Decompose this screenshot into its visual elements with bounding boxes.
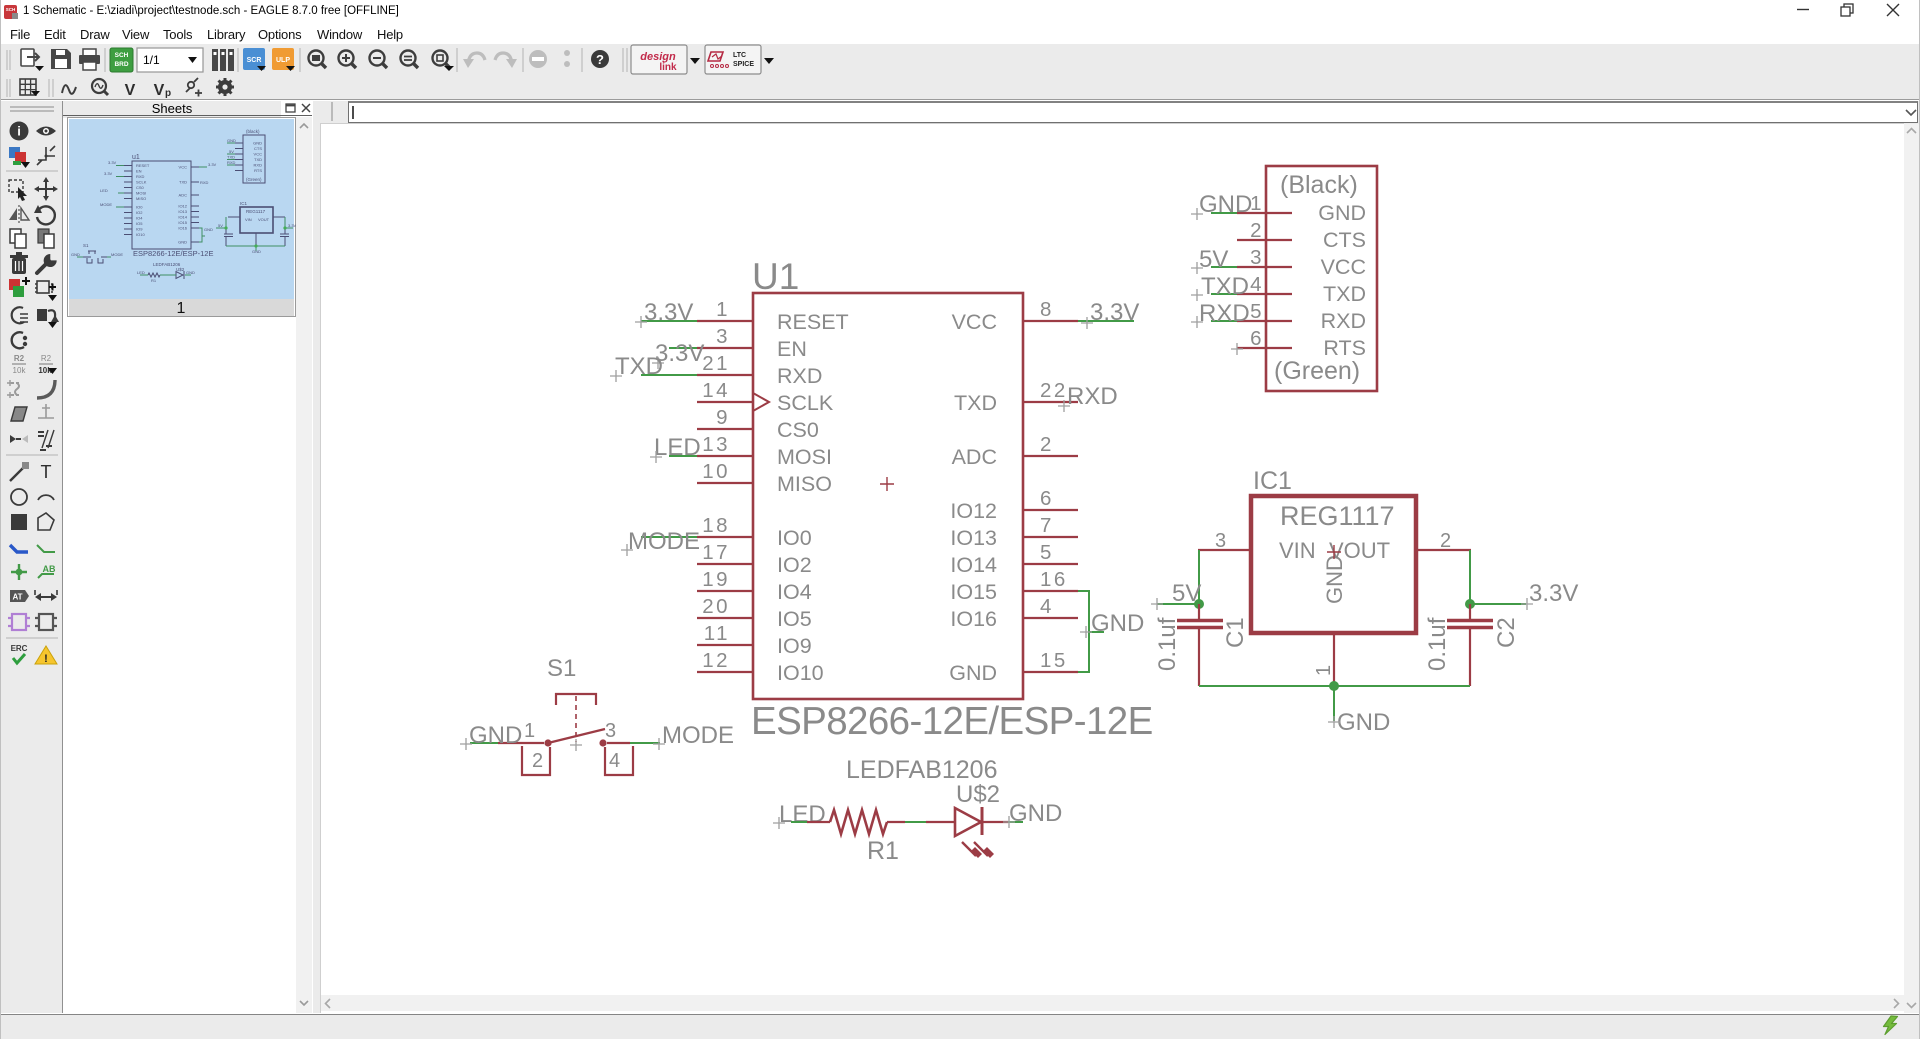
probe magnifier icon bbox=[92, 79, 108, 95]
IC1 reference designator bbox=[1253, 467, 1292, 495]
LTC SPICE button bbox=[705, 45, 761, 74]
svg-text:0.1uf: 0.1uf bbox=[1424, 617, 1451, 671]
zoom redraw icon bbox=[401, 51, 419, 69]
redo icon (disabled) bbox=[495, 53, 517, 68]
svg-text:11: 11 bbox=[704, 622, 730, 645]
svg-text:LED: LED bbox=[779, 801, 826, 828]
wire GND bottom rail bbox=[1199, 685, 1470, 687]
V probe icon bbox=[125, 82, 136, 99]
wire RXD to connector pin 5 bbox=[1211, 320, 1237, 322]
svg-text:2: 2 bbox=[1440, 530, 1451, 552]
tool bus bbox=[10, 545, 28, 552]
svg-text:1: 1 bbox=[524, 720, 535, 742]
C1 reference designator (rotated) bbox=[1222, 617, 1249, 648]
design link button bbox=[631, 45, 687, 74]
svg-text:MISO: MISO bbox=[777, 472, 832, 496]
open/export icon bbox=[21, 49, 44, 71]
wire VIN net: pin3 down to 5V junction bbox=[1198, 550, 1200, 604]
tool rotate bbox=[34, 205, 55, 224]
tool attribute bbox=[10, 590, 29, 602]
svg-text:TXD: TXD bbox=[1201, 273, 1249, 300]
connector pin 1 (GND) bbox=[1237, 192, 1366, 225]
U1 pin 17 (IO2) bbox=[697, 541, 812, 577]
svg-text:4: 4 bbox=[1250, 273, 1264, 296]
U1 pin 11 (IO9) bbox=[697, 622, 812, 658]
left toolbar drag handle bbox=[10, 107, 54, 111]
sheet thumbnail cell bbox=[68, 118, 296, 318]
svg-text:RESET: RESET bbox=[777, 310, 849, 334]
wire LED to U1 pin 13 bbox=[669, 455, 697, 457]
svg-text:MODE: MODE bbox=[628, 528, 700, 555]
wire MODE to U1 pin 18 bbox=[641, 536, 697, 538]
switch S1 reference designator bbox=[547, 655, 576, 682]
zoom in icon bbox=[339, 51, 357, 69]
wire GND to connector pin 1 bbox=[1211, 212, 1237, 214]
wire MODE to S1 pin 3 bbox=[630, 742, 660, 744]
status lightning bolt bbox=[1884, 1016, 1898, 1035]
IC1 value REG1117 bbox=[1280, 501, 1395, 531]
svg-text:3: 3 bbox=[1250, 246, 1264, 269]
svg-text:REG1117: REG1117 bbox=[1280, 501, 1395, 531]
tool circle bbox=[11, 489, 27, 505]
svg-text:5: 5 bbox=[1250, 300, 1264, 323]
IC1 REG1117 box bbox=[1251, 496, 1416, 633]
IC1 pin 3 (VIN) bbox=[1198, 530, 1251, 552]
U1 pin 3 (EN) bbox=[697, 325, 807, 361]
U1 pin 5 (IO14) bbox=[950, 541, 1078, 577]
svg-text:19: 19 bbox=[702, 568, 730, 591]
capacitor C1 bbox=[1177, 604, 1223, 686]
IC U1 ESP8266-12E box bbox=[753, 293, 1023, 699]
toolbar handle bbox=[7, 50, 10, 70]
options dots (disabled) bbox=[564, 50, 570, 67]
svg-text:EN: EN bbox=[777, 337, 807, 361]
undo icon (disabled) bbox=[463, 53, 485, 68]
U1 pin 7 (IO13) bbox=[950, 514, 1078, 550]
zoom out icon bbox=[370, 51, 388, 69]
wire 5V to connector pin 3 bbox=[1211, 266, 1237, 268]
svg-text:IO5: IO5 bbox=[777, 607, 812, 631]
U1 pin 12 (IO10) bbox=[697, 649, 824, 685]
command input caret bbox=[352, 106, 354, 119]
C2 reference designator (rotated) bbox=[1493, 617, 1520, 648]
net label GND (U1 right) bbox=[1080, 610, 1144, 638]
svg-text:GND: GND bbox=[1318, 201, 1366, 225]
wire 3.3V stub bbox=[1470, 603, 1526, 605]
junction at C2 top bbox=[1465, 599, 1475, 609]
wire GND stub (LED right) bbox=[1008, 821, 1023, 823]
net label 3.3V (IC1) bbox=[1521, 580, 1578, 610]
S1 pin 1 bbox=[498, 720, 544, 743]
svg-text:3.3V: 3.3V bbox=[644, 299, 693, 326]
svg-text:9: 9 bbox=[716, 406, 730, 429]
svg-text:4: 4 bbox=[609, 750, 620, 772]
net label 3.3V (U1 pin 1) bbox=[635, 299, 693, 328]
svg-text:C2: C2 bbox=[1493, 617, 1520, 648]
U1 pin 15 (GND) bbox=[949, 649, 1078, 685]
IC1 pin name VOUT bbox=[1329, 538, 1390, 563]
svg-text:S1: S1 bbox=[547, 655, 576, 682]
svg-text:SCLK: SCLK bbox=[777, 391, 834, 415]
tool move bbox=[34, 177, 58, 201]
svg-text:IO9: IO9 bbox=[777, 634, 812, 658]
settings gear icon bbox=[216, 78, 234, 96]
svg-text:18: 18 bbox=[702, 514, 730, 537]
wire 5V stub bbox=[1157, 603, 1200, 605]
svg-text:IO14: IO14 bbox=[950, 553, 997, 577]
svg-text:(Black): (Black) bbox=[1280, 171, 1358, 199]
tool add part bbox=[9, 277, 30, 297]
svg-text:6: 6 bbox=[1250, 327, 1264, 350]
switch S1 dashed stem bbox=[575, 696, 577, 742]
window restore button bbox=[1841, 4, 1853, 16]
svg-text:GND: GND bbox=[469, 722, 522, 749]
U1 reference designator bbox=[752, 256, 799, 297]
wire LED stub bbox=[791, 821, 807, 823]
U1 pin 8 (VCC) bbox=[952, 298, 1078, 334]
svg-text:IO0: IO0 bbox=[777, 526, 812, 550]
svg-text:3.3V: 3.3V bbox=[1090, 299, 1139, 326]
tool smash bbox=[7, 380, 19, 398]
tool label bbox=[38, 564, 56, 578]
U1 pin 2 (ADC) bbox=[952, 433, 1078, 469]
wire GND to S1 pin 1 bbox=[470, 742, 498, 744]
sheets panel scrollbar bbox=[296, 117, 312, 1013]
svg-text:R1: R1 bbox=[867, 837, 899, 865]
svg-text:5: 5 bbox=[1040, 541, 1054, 564]
LED part name LEDFAB1206 bbox=[846, 756, 998, 784]
tool dimension bbox=[35, 590, 57, 601]
ULP icon bbox=[272, 48, 295, 71]
separators bbox=[6, 171, 58, 638]
sine tool icon bbox=[62, 85, 76, 94]
svg-text:IO12: IO12 bbox=[950, 499, 997, 523]
C1 value 0.1uf (rotated) bbox=[1154, 617, 1181, 671]
svg-text:IO16: IO16 bbox=[950, 607, 997, 631]
tool invoke bbox=[35, 281, 57, 301]
tool frame2 bbox=[35, 614, 57, 630]
command toolbar handle bbox=[331, 102, 333, 121]
svg-text:RXD: RXD bbox=[1067, 383, 1118, 410]
tool delete bbox=[10, 252, 28, 274]
thumbnail mini schematic bbox=[71, 129, 297, 283]
svg-text:2: 2 bbox=[532, 750, 543, 772]
net label 3.3V (U1 pin 3) bbox=[652, 340, 704, 369]
IC1 origin cross bbox=[1327, 545, 1341, 559]
svg-text:U1: U1 bbox=[752, 256, 799, 297]
tool group/select bbox=[9, 180, 27, 201]
canvas vertical scrollbar arrows bbox=[1907, 129, 1916, 1008]
svg-text:12: 12 bbox=[702, 649, 730, 672]
U1 pin 16 (IO15) bbox=[950, 568, 1078, 604]
net label RXD (U1 pin 22) bbox=[1058, 383, 1118, 412]
svg-text:LEDFAB1206: LEDFAB1206 bbox=[846, 756, 998, 784]
svg-text:VCC: VCC bbox=[952, 310, 997, 334]
U1 pin 19 (IO4) bbox=[697, 568, 812, 604]
tool wire bbox=[10, 462, 29, 481]
design link dropdown bbox=[690, 58, 700, 64]
svg-text:14: 14 bbox=[702, 379, 730, 402]
zoom select icon bbox=[433, 51, 455, 72]
svg-text:CS0: CS0 bbox=[777, 418, 819, 442]
svg-text:7: 7 bbox=[1040, 514, 1054, 537]
IC1 pin 1 (GND) bbox=[1313, 633, 1335, 687]
net label RXD (connector) bbox=[1191, 300, 1250, 328]
tool gateswap bbox=[12, 332, 28, 348]
tool value bbox=[38, 354, 57, 375]
SCR icon bbox=[243, 48, 266, 71]
svg-text:TXD: TXD bbox=[1323, 282, 1366, 306]
net label GND (connector) bbox=[1191, 191, 1252, 220]
svg-text:MOSI: MOSI bbox=[777, 445, 832, 469]
tool arc bbox=[38, 495, 54, 500]
svg-text:(Green): (Green) bbox=[1274, 357, 1360, 385]
net label 5V (IC1) bbox=[1151, 580, 1201, 610]
svg-text:IC1: IC1 bbox=[1253, 467, 1292, 495]
wire 3.3V to U1 pin 8 bbox=[1078, 320, 1134, 322]
S1 pin 2 hook bbox=[522, 746, 550, 775]
U1 pin 18 (IO0) bbox=[697, 514, 812, 550]
SCH/BRD icon bbox=[110, 48, 133, 72]
U1 pin 20 (IO5) bbox=[697, 595, 812, 631]
U1 origin cross bbox=[880, 477, 894, 491]
switch S1 contacts and lever bbox=[544, 729, 606, 747]
svg-text:IO10: IO10 bbox=[777, 661, 824, 685]
U1 pin 4 (IO16) bbox=[950, 595, 1078, 631]
net label LED (U1) bbox=[650, 434, 701, 463]
net label TXD (connector) bbox=[1191, 273, 1249, 301]
tool info bbox=[10, 122, 29, 141]
svg-text:MODE: MODE bbox=[662, 722, 734, 749]
wire between R1 and LED bbox=[905, 821, 926, 823]
svg-text:6: 6 bbox=[1040, 487, 1054, 510]
U1 pin 10 (MISO) bbox=[697, 460, 832, 496]
tool pinswap bbox=[10, 435, 28, 443]
svg-text:22: 22 bbox=[1040, 379, 1068, 402]
net label 5V (connector) bbox=[1191, 246, 1228, 274]
tool errors bbox=[35, 646, 57, 665]
connector title (Black) bbox=[1280, 171, 1358, 199]
S1 pin 4 hook bbox=[605, 746, 633, 775]
wire VOUT net: pin2 down to 3.3V junction bbox=[1469, 550, 1471, 604]
resistor R1 bbox=[807, 810, 905, 834]
svg-text:U$2: U$2 bbox=[956, 781, 1000, 808]
tool wrench bbox=[37, 253, 58, 273]
junction at GND rail bbox=[1329, 681, 1339, 691]
svg-text:13: 13 bbox=[702, 433, 730, 456]
svg-text:3: 3 bbox=[716, 325, 730, 348]
wire 3.3V to U1 pin 3 (EN) bbox=[669, 347, 697, 349]
svg-text:VCC: VCC bbox=[1321, 255, 1366, 279]
LTC dropdown bbox=[764, 58, 774, 64]
svg-text:4: 4 bbox=[1040, 595, 1054, 618]
connector title (Green) bbox=[1274, 357, 1360, 385]
print icon bbox=[79, 49, 100, 70]
sheets close icon bbox=[302, 104, 310, 112]
S1 pin 3 bbox=[605, 720, 630, 743]
U1 pin 1 (RESET) bbox=[697, 298, 849, 334]
net label LED (left) bbox=[773, 801, 826, 829]
LED reference designator U$2 bbox=[956, 781, 1000, 808]
help icon bbox=[591, 50, 609, 68]
tool display layers bbox=[9, 147, 30, 168]
svg-text:TXD: TXD bbox=[615, 353, 663, 380]
svg-text:0.1uf: 0.1uf bbox=[1154, 617, 1181, 671]
net label GND (IC1) bbox=[1328, 709, 1390, 736]
C2 value 0.1uf (rotated) bbox=[1424, 617, 1451, 671]
svg-text:3: 3 bbox=[1215, 530, 1226, 552]
net label MODE (U1) bbox=[621, 528, 700, 556]
row2 handle bbox=[7, 79, 10, 97]
connector pin 2 (CTS) bbox=[1237, 219, 1366, 252]
U1 pin 14 (SCLK) bbox=[697, 379, 834, 415]
U1 pin 13 (MOSI) bbox=[697, 433, 832, 469]
tool split cross bbox=[38, 404, 54, 418]
svg-text:16: 16 bbox=[1040, 568, 1068, 591]
svg-text:GND: GND bbox=[1322, 555, 1347, 604]
svg-text:IO2: IO2 bbox=[777, 553, 812, 577]
connector pin 5 (RXD) bbox=[1237, 300, 1366, 333]
connector pin 3 (VCC) bbox=[1237, 246, 1366, 279]
IC1 pin 2 (VOUT) bbox=[1416, 530, 1471, 552]
svg-text:20: 20 bbox=[702, 595, 730, 618]
svg-text:RXD: RXD bbox=[1199, 300, 1250, 327]
U1 pin 9 (CS0) bbox=[697, 406, 819, 442]
svg-text:5V: 5V bbox=[1199, 246, 1228, 273]
svg-text:3: 3 bbox=[605, 720, 616, 742]
R1 reference designator bbox=[867, 837, 899, 865]
tool polygon bbox=[38, 513, 54, 530]
svg-text:IO15: IO15 bbox=[950, 580, 997, 604]
app icon SCH bbox=[4, 5, 18, 19]
junction at C1 top bbox=[1194, 599, 1204, 609]
connector pin 6 (RTS) bbox=[1237, 327, 1366, 360]
wire 3.3V to U1 pin 1 bbox=[641, 320, 697, 322]
svg-text:CTS: CTS bbox=[1323, 228, 1366, 252]
svg-text:IO13: IO13 bbox=[950, 526, 997, 550]
library icon bbox=[212, 49, 234, 71]
svg-text:RXD: RXD bbox=[777, 364, 822, 388]
tool paste special bbox=[37, 309, 59, 328]
wire GND bracket U1 pins 16,15 bbox=[1078, 590, 1104, 673]
svg-text:2: 2 bbox=[1040, 433, 1054, 456]
tool change bbox=[12, 307, 28, 323]
svg-text:3.3V: 3.3V bbox=[1529, 580, 1578, 607]
svg-text:GND: GND bbox=[1091, 610, 1144, 637]
grid icon bbox=[20, 79, 40, 96]
tool cut bbox=[38, 229, 54, 248]
connector pin 4 (TXD) bbox=[1237, 273, 1366, 306]
svg-text:17: 17 bbox=[702, 541, 730, 564]
svg-text:1: 1 bbox=[1313, 665, 1335, 676]
svg-text:ESP8266-12E/ESP-12E: ESP8266-12E/ESP-12E bbox=[751, 700, 1153, 743]
zoom fit icon bbox=[309, 51, 327, 69]
U1 pin 21 (RXD) bbox=[697, 352, 822, 388]
tool ERC bbox=[11, 644, 28, 663]
tool show/eye bbox=[36, 127, 56, 136]
U1 value ESP8266-12E/ESP-12E bbox=[751, 700, 1153, 743]
stop icon (disabled) bbox=[529, 50, 547, 68]
wire GND stub down bbox=[1333, 686, 1335, 721]
IC1 pin name GND (rotated) bbox=[1322, 555, 1347, 604]
IC1 pin name VIN bbox=[1279, 538, 1316, 563]
window close button bbox=[1887, 4, 1899, 16]
tool array bbox=[38, 430, 54, 450]
sheets float icon bbox=[286, 104, 295, 112]
svg-text:C1: C1 bbox=[1222, 617, 1249, 648]
svg-text:RTS: RTS bbox=[1323, 336, 1366, 360]
tool frame1 bbox=[8, 614, 30, 630]
U1 pin 6 (IO12) bbox=[950, 487, 1078, 523]
net label GND (S1) bbox=[460, 722, 522, 750]
svg-text:GND: GND bbox=[1199, 191, 1252, 218]
svg-text:GND: GND bbox=[1009, 800, 1062, 827]
tool rect bbox=[11, 514, 27, 530]
net label 3.3V (U1 pin 8) bbox=[1081, 299, 1139, 329]
svg-text:10: 10 bbox=[702, 460, 730, 483]
window minimize button bbox=[1797, 9, 1809, 11]
svg-text:1: 1 bbox=[716, 298, 730, 321]
svg-text:IO4: IO4 bbox=[777, 580, 812, 604]
svg-text:ADC: ADC bbox=[952, 445, 997, 469]
net label TXD bbox=[610, 353, 663, 382]
svg-text:GND: GND bbox=[949, 661, 997, 685]
net label MODE (S1) bbox=[653, 722, 734, 750]
canvas horizontal scrollbar arrows bbox=[326, 999, 1899, 1008]
command combo dropdown bbox=[1906, 110, 1916, 115]
save icon bbox=[51, 49, 71, 69]
connector pin 6 end cross bbox=[1231, 343, 1243, 355]
sheet combo 1/1 bbox=[137, 48, 203, 72]
svg-text:15: 15 bbox=[1040, 649, 1068, 672]
U1 pin 22 (TXD) bbox=[954, 379, 1078, 415]
svg-text:21: 21 bbox=[702, 352, 730, 375]
connector box (Black)/(Green) bbox=[1266, 166, 1377, 391]
tool mirror bbox=[9, 205, 29, 223]
tool ratsnest bbox=[11, 407, 27, 421]
tool junction bbox=[11, 564, 27, 580]
net label GND (LED) bbox=[1003, 800, 1062, 828]
S1 origin cross bbox=[570, 739, 582, 751]
svg-text:2: 2 bbox=[1250, 219, 1264, 242]
tool mark bbox=[37, 146, 55, 165]
svg-text:TXD: TXD bbox=[954, 391, 997, 415]
wire TXD to U1 pin 21 bbox=[641, 374, 697, 376]
LED U$2 symbol bbox=[926, 807, 1008, 858]
svg-text:VIN: VIN bbox=[1279, 538, 1316, 563]
Vp probe icon bbox=[154, 82, 171, 99]
svg-text:8: 8 bbox=[1040, 298, 1054, 321]
tool net bbox=[37, 545, 55, 552]
tool text bbox=[41, 462, 52, 482]
tool copy bbox=[10, 229, 26, 248]
svg-text:GND: GND bbox=[1337, 709, 1390, 736]
wire TXD to connector pin 4 bbox=[1211, 293, 1237, 295]
tool name bbox=[12, 354, 26, 375]
capacitor C2 bbox=[1447, 604, 1493, 686]
svg-text:RXD: RXD bbox=[1321, 309, 1366, 333]
tool miter bbox=[37, 380, 55, 398]
switch S1 actuator bracket bbox=[555, 693, 597, 705]
node probe icon bbox=[186, 78, 202, 97]
